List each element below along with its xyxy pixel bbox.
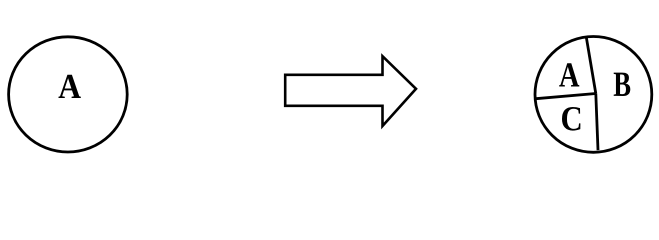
circle A (left)	[9, 37, 128, 152]
divider: left radius	[535, 94, 596, 99]
label B (pie sector)	[614, 73, 631, 96]
circle (right, pie)	[535, 37, 652, 153]
label A (pie sector)	[559, 63, 579, 86]
label C (pie sector)	[562, 107, 580, 131]
arrow (block arrow pointing right)	[285, 56, 416, 126]
label A (left circle)	[59, 75, 81, 98]
divider: bottom radius	[596, 94, 598, 151]
divider: top radius	[586, 37, 596, 93]
